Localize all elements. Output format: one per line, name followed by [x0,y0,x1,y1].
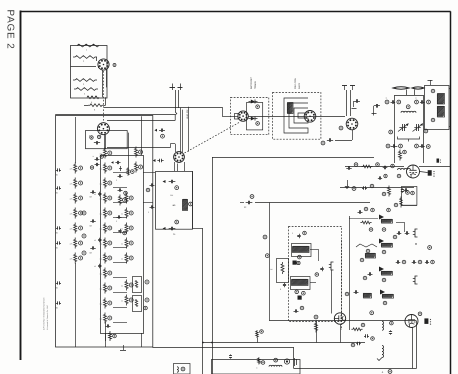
svg-text:OSC COIL: OSC COIL [294,77,297,89]
loop antenna lens right [412,87,424,89]
padder block [293,261,297,265]
wire plate vertical [188,107,190,152]
wire AVC line [247,202,252,204]
wire rung [113,187,127,189]
bottom tick [120,350,126,352]
wire bus plate [104,107,188,109]
capacitor C46 [120,229,122,231]
resistor R16 with part circle [74,253,77,264]
capacitor C84 [405,233,407,235]
bandswitch box [86,131,128,149]
svg-text:22: 22 [121,243,123,246]
svg-text:05: 05 [94,239,96,242]
part circle [339,126,343,130]
resistor R35 with part circle [125,280,128,291]
FM antenna bars [342,85,347,87]
winding L3 [438,94,445,105]
resistor R22 with part circle [104,178,107,189]
svg-text:11: 11 [386,97,388,100]
wire [331,270,333,314]
svg-text:22: 22 [121,300,123,303]
capacitor C91 [356,343,358,345]
capacitor C57 [391,146,394,148]
tube V7 envelope [407,165,420,178]
part circle [431,89,435,93]
IF module dashed box [289,227,342,322]
capacitor C53 [374,105,376,107]
resistor R4 [74,88,98,91]
loop antenna lens left [393,87,409,89]
capacitor C15 [56,303,58,305]
wire converter link [248,116,345,118]
wire B- return bottom [294,368,417,370]
wire bottom bus [153,347,294,349]
resistor R41 with part circle [135,162,138,173]
wire B- return [416,321,418,369]
resistor R3 [73,79,97,82]
coil L5 [398,168,411,170]
resistor R20 with part circle [104,148,107,159]
capacitor C83 [397,233,399,235]
wire [310,249,318,251]
resistor R60 [399,150,402,161]
wire [96,57,98,61]
capacitor C40 with arrow [169,181,172,183]
capacitor C36 [106,326,108,328]
svg-text:TRANS: TRANS [254,81,257,89]
tube V5 socket [304,111,316,123]
capacitor C87 [425,262,426,264]
capacitor C40 [99,192,101,194]
svg-text:300 OHM: 300 OHM [186,110,189,120]
svg-text:11: 11 [415,97,417,100]
capacitor C63 [402,188,404,190]
tube V9 envelope [405,315,418,328]
wire [105,135,107,149]
dashed shaft coupling V1 [103,71,105,123]
wire rung [113,232,127,234]
detector box [156,172,193,230]
switch ladder box [101,156,144,334]
capacitor C73 [294,311,296,313]
part circle [352,187,356,191]
coil L13 [269,365,282,366]
capacitor C81 [368,274,370,276]
part circle [298,255,302,259]
junction dot [202,342,204,344]
resistor R80 [360,221,371,224]
discriminator box [402,187,417,206]
padder block 2 [298,296,302,300]
capacitor C82 [354,292,356,294]
tube V1 socket [98,59,109,70]
resistor R91 [315,322,318,333]
tube V3 socket [174,152,185,163]
capacitor C21 [90,221,92,223]
part circle [144,306,148,310]
wire [396,222,404,224]
capacitor C10 [56,170,58,172]
capacitor C3 grid arrow [157,160,159,162]
wire rail [269,203,271,321]
wire [340,187,414,189]
wire [401,205,417,207]
part circle [263,235,267,239]
pilot lamp [284,359,289,364]
svg-text:PAGE 2: PAGE 2 [5,10,16,50]
winding L4 [438,107,445,118]
wire bus [107,147,170,149]
trimmer box T2 [133,296,142,312]
wire [340,324,342,342]
resistor R29 with part circle [104,283,107,294]
wire rung [113,307,127,309]
resistor R31 with part circle [125,208,128,219]
capacitor C20 [90,192,92,194]
resistor R95 with part circle [258,357,261,364]
resistor R63 [400,197,403,208]
capacitor C32 [95,164,97,166]
wire bus [55,114,175,116]
tube V2 socket [97,123,109,135]
svg-text:22: 22 [121,213,123,216]
grid tab [235,114,239,120]
resistor R26 with part circle [104,238,107,249]
gang coupling bar [398,137,420,140]
resistor R211 with part circle [104,313,107,324]
resistor R50 [109,331,112,341]
resistor R28 with part circle [104,268,107,279]
resistor R62 [388,186,391,197]
capacitor C43 [150,207,152,209]
resistor R25 with part circle [104,223,107,234]
resistor R11 with part circle [74,178,77,189]
page frame top border [21,11,451,13]
capacitor C80 [358,212,360,214]
capacitor C60 [346,168,348,170]
resistor R40 with part circle [135,147,138,158]
resistor R30 with part circle [125,193,128,204]
wire [104,134,106,149]
FM twin lead [346,90,348,116]
tube V8 envelope [334,313,345,324]
part circle [370,311,374,315]
antenna terminal bars [170,87,176,89]
wire [420,172,428,173]
capacitor C51 [385,100,389,104]
wire [349,218,378,220]
wire rung [113,217,127,219]
chassis enclosure box [56,116,153,348]
wire [240,202,244,204]
svg-text:05: 05 [94,193,96,196]
resistor R15 with part circle [74,238,77,249]
capacitor C34 [118,176,120,178]
svg-text:ASSY: ASSY [298,82,301,89]
coil L10 [382,321,384,330]
tube V6 socket [346,118,358,130]
wire jog [192,228,202,230]
resistor R32 with part circle [125,223,128,234]
diode D1 [249,100,258,104]
capacitor C71 [284,283,286,285]
part circle [145,280,149,284]
capacitor C52 [415,100,419,104]
capacitor C14 [56,283,58,285]
svg-text:© Howard W. Sams & Co. 1947: © Howard W. Sams & Co. 1947 [46,305,49,330]
capacitor C22 [90,248,92,250]
capacitor C50 [327,140,329,142]
part circle [428,246,432,250]
coil L12 [177,367,178,373]
capacitor C35 [118,190,120,192]
IF transformer frame [292,244,312,257]
ground [347,180,349,184]
wire tuner rails [394,95,396,163]
capacitor C65 [246,202,249,204]
converter dashed box [231,98,269,135]
slider bracket [356,244,377,247]
capacitor C90 [364,336,366,338]
resistor R23 with part circle [104,193,107,204]
resistor R210 with part circle [104,298,107,309]
capacitor C61 [383,167,385,169]
winding L9 [364,294,372,299]
oscillator shield loops [284,98,308,133]
resistor R27 with part circle [104,253,107,264]
wire lower-right box top [212,157,374,159]
resistor R14 with part circle [74,223,77,234]
part circle [82,211,86,215]
resistor R12 with part circle [74,193,77,204]
part circle [82,234,86,238]
antenna twin lead [175,90,177,112]
part circle [314,315,318,319]
wire vertical rail [202,228,204,374]
wire rung [113,262,127,264]
winding L6 [293,247,310,253]
wire V1 leads [102,70,104,98]
wire vertical rail [212,157,214,374]
diode D2 [249,117,258,121]
connector block V9 [424,318,428,324]
wire grid pair [180,108,182,153]
resistor network box [71,46,108,99]
capacitor C41 with arrow [169,228,172,230]
alignment mark [113,64,116,67]
resistor R36 with part circle [125,295,128,306]
resistor R70 in can [277,259,289,283]
svg-text:22: 22 [121,258,123,261]
wire [192,171,194,228]
tuning capacitor C56 [414,127,416,129]
pilot lamp box [174,364,191,374]
capacitor C31 [95,159,97,161]
capacitor C13 [56,243,58,245]
wire [141,333,143,347]
capacitor C85 [396,262,398,264]
wire ladder bottom [105,333,107,347]
resistor R6 with part circle [127,167,130,175]
resistor R33 with part circle [125,238,128,249]
svg-text:22: 22 [121,285,123,288]
resistor R24 with part circle [104,208,107,219]
wire rung [113,172,127,174]
jack J3 [415,276,418,284]
wire bottom bus [269,320,416,322]
antenna coil shield box [425,86,450,130]
tube V4 socket [238,111,248,121]
jack J2 [415,229,418,237]
capacitor C72 [322,267,324,269]
wire rail [349,216,351,330]
resistor R61 [362,165,373,168]
connector bars [294,358,296,366]
coil L2 [401,111,416,113]
capacitor C70 [299,234,301,236]
output connector block [428,170,432,176]
wire [316,321,318,343]
capacitor C2 [159,130,161,132]
wire rung [113,292,127,294]
resistor R93 [256,330,259,338]
wire [449,88,451,90]
stage U1 diode-transformer [379,215,384,220]
stage U4 diode-transformer [380,290,385,295]
resistor R10 with part circle [74,163,77,174]
converter inner box [247,103,263,130]
resistor R13 with part circle [74,208,77,219]
svg-text:A PHOTOFACT STANDARD NOTATION: A PHOTOFACT STANDARD NOTATION [43,297,46,330]
part circle [295,290,299,294]
page frame right border [450,11,452,374]
capacitor C41 [99,238,101,240]
wire [71,66,97,68]
tuning capacitor C55 [399,127,402,129]
wire output bus [345,166,404,168]
resistor R2 [73,56,97,59]
wire [141,116,143,155]
wire [345,116,347,118]
wire rung [113,322,127,324]
oscillator dashed box [273,93,321,140]
wire bottom bus 2 [203,342,365,344]
winding L7 [292,280,309,286]
svg-text:2: 2 [141,309,142,312]
capacitor C89 [390,330,392,332]
winding L1 [183,200,188,211]
capacitor C33 with arrow [115,162,117,164]
capacitor C63b [378,178,380,180]
power box [212,360,301,374]
capacitor C11 [56,188,58,190]
svg-text:RATIO DET: RATIO DET [250,76,253,89]
wire rung [113,202,127,204]
svg-text:05: 05 [94,265,96,268]
aux connector block [437,159,440,163]
resistor R34 with part circle [125,253,128,264]
stage U3 diode-transformer [379,267,384,272]
dashed gang line to converter [185,122,241,153]
wire [128,133,130,175]
resistor R90 [351,328,362,331]
capacitor C86 [412,262,414,264]
part circle [82,251,86,255]
capacitor C12 [56,228,58,230]
jack J1 [331,262,334,270]
wire [412,328,414,369]
trimmer box T1 [133,277,142,293]
wire [352,130,354,140]
capacitor C45 [117,217,119,219]
page frame left bar [20,11,22,361]
resistor R1 [77,44,99,47]
resistor R5 [87,96,99,99]
capacitor C54 [354,101,356,103]
dashed rail [341,240,343,330]
ground hook [377,358,382,361]
wire [84,105,88,107]
winding L8 [366,254,376,259]
wire rung [113,277,127,279]
IF transformer frame 2 [291,277,311,290]
wire [75,117,77,163]
resistor R21 with part circle [104,163,107,174]
capacitor C58 [419,146,421,148]
capacitor C62 [362,188,364,190]
capacitor C42 [99,264,101,266]
capacitor C5 [94,142,96,144]
winding L0 [288,103,294,114]
wire rung [113,247,127,249]
capacitor C64 [404,190,406,192]
svg-text:22: 22 [121,228,123,231]
stage U2 diode-transformer [379,239,384,244]
part circle [274,358,278,362]
wire [143,172,155,174]
wire bus [107,120,175,122]
capacitor C42 [150,185,152,187]
wire [177,164,179,172]
wire plate link [188,107,222,109]
resistor R5b [88,104,104,107]
capacitor C92 [230,354,232,355]
coil L11 [382,346,384,358]
wire V3 leads down [174,162,176,171]
wire [430,80,432,85]
resistor R35 with part circle [119,195,122,206]
